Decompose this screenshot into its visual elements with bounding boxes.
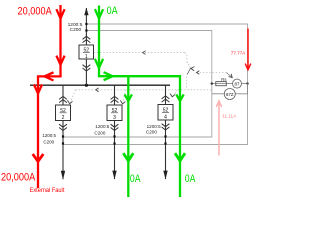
feeder 4 drawout chevrons lower (162, 124, 170, 130)
breaker 52-2 (56, 105, 71, 121)
green flow path feeder1 to feeder4 (99, 6, 180, 198)
svg-text:20,000A: 20,000A (1, 171, 36, 183)
relay 87Z (224, 89, 235, 100)
87Z parallel wire (212, 84, 248, 94)
svg-text:11.11A: 11.11A (222, 113, 237, 118)
feeder 3 load arrow (112, 171, 116, 180)
feeder 1 drawout chevrons lower (83, 65, 91, 71)
svg-text:C200: C200 (146, 130, 157, 135)
svg-text:0A: 0A (107, 5, 119, 17)
green arrow feeder4 upper (176, 94, 183, 101)
feeder 1 CT dot lower (85, 29, 87, 31)
feeder 1 line (85, 8, 87, 85)
main bus (30, 84, 170, 86)
svg-text:87Z: 87Z (226, 92, 234, 97)
red arrow below bus (34, 84, 42, 93)
red arrow bottom big (33, 154, 44, 162)
feeder 3 drawout chevrons lower (111, 124, 119, 130)
feeder 4 drawout chevrons upper (162, 96, 170, 102)
red fault flow path (38, 5, 61, 188)
svg-text:1200:5: 1200:5 (42, 133, 56, 138)
CT secondary inner loop wire (63, 31, 212, 138)
feeder 3 drawout chevrons upper (111, 96, 119, 102)
svg-text:0A: 0A (185, 173, 196, 185)
relay branch node dots (211, 82, 213, 84)
feeder 2 drawout chevrons lower (59, 124, 67, 130)
trip arrow at breaker 3 (120, 100, 125, 103)
trip bus arrow west (96, 88, 99, 92)
feeder 4 CT dots (164, 135, 166, 137)
green arrow feeder3 lower big (123, 153, 133, 161)
svg-text:87: 87 (235, 81, 240, 86)
trip wire dashed to breaker 1 (94, 52, 186, 54)
breaker 52-4 (158, 105, 173, 121)
feeder 1 source arrow up (84, 8, 88, 16)
svg-text:2: 2 (62, 115, 65, 121)
green arrow east (104, 72, 113, 80)
breaker 52-1 (79, 45, 94, 59)
svg-text:3: 3 (113, 115, 116, 121)
trip arrow at breaker 2 (67, 100, 72, 103)
svg-text:C200: C200 (70, 27, 82, 33)
feeder 1 drawout chevrons upper (83, 36, 91, 42)
pink secondary current arrow up (216, 101, 221, 156)
trip junction arrow down-left (191, 67, 195, 71)
svg-text:1: 1 (85, 54, 88, 60)
feeder 1 CT dot upper (85, 23, 87, 25)
feeder 3 line (114, 85, 116, 179)
feeder 2 CT dots (62, 135, 64, 137)
red secondary current arrow right (245, 29, 251, 70)
feeder 3 CT dots (113, 135, 115, 137)
red arrow mid (56, 56, 64, 65)
green arrow mid feeder1 (95, 59, 103, 68)
svg-text:4: 4 (164, 114, 167, 120)
svg-text:External Fault: External Fault (30, 187, 65, 194)
CT secondary outer loop wire (63, 24, 248, 145)
relay 87 (233, 79, 242, 88)
resistor Rs (216, 82, 227, 86)
trip wire to relay (197, 72, 227, 74)
svg-text:0A: 0A (130, 173, 141, 185)
trip wire arrow west (197, 71, 200, 75)
svg-text:77.77A: 77.77A (231, 50, 246, 55)
svg-text:1200:5: 1200:5 (95, 124, 109, 129)
trip arrow at breaker 4 (170, 94, 175, 97)
feeder 2 load arrow (61, 171, 65, 180)
trip curve to breaker 3 (123, 90, 126, 102)
feeder 2 drawout chevrons upper (59, 96, 67, 102)
trip wire arrow on breaker-1 line (143, 51, 146, 55)
trip wire vertical drop (186, 77, 188, 90)
green arrow top (95, 9, 103, 18)
bus junction node (85, 84, 88, 87)
red arrow west (45, 72, 54, 80)
relay branch wire (212, 83, 248, 85)
svg-text:20,000A: 20,000A (18, 5, 53, 17)
svg-text:1200:5: 1200:5 (147, 124, 161, 129)
green branch to feeder 3 (127, 76, 129, 197)
feeder 4 load arrow (163, 171, 167, 180)
svg-text:C200: C200 (43, 140, 54, 145)
red arrow top (56, 9, 64, 18)
feeder 2 line (62, 85, 64, 179)
trip bus dashed (76, 89, 212, 91)
green arrow feeder3 upper (125, 94, 132, 101)
trip wire curve near junction (185, 53, 187, 62)
breaker 52-3 (107, 105, 122, 121)
svg-text:C200: C200 (94, 130, 105, 135)
svg-text:Rs: Rs (221, 77, 226, 82)
trip curve to breaker 2 (70, 90, 75, 102)
trip curve to breaker 4 (173, 90, 177, 96)
green arrow feeder4 lower big (175, 153, 185, 161)
feeder 4 line (165, 85, 167, 179)
